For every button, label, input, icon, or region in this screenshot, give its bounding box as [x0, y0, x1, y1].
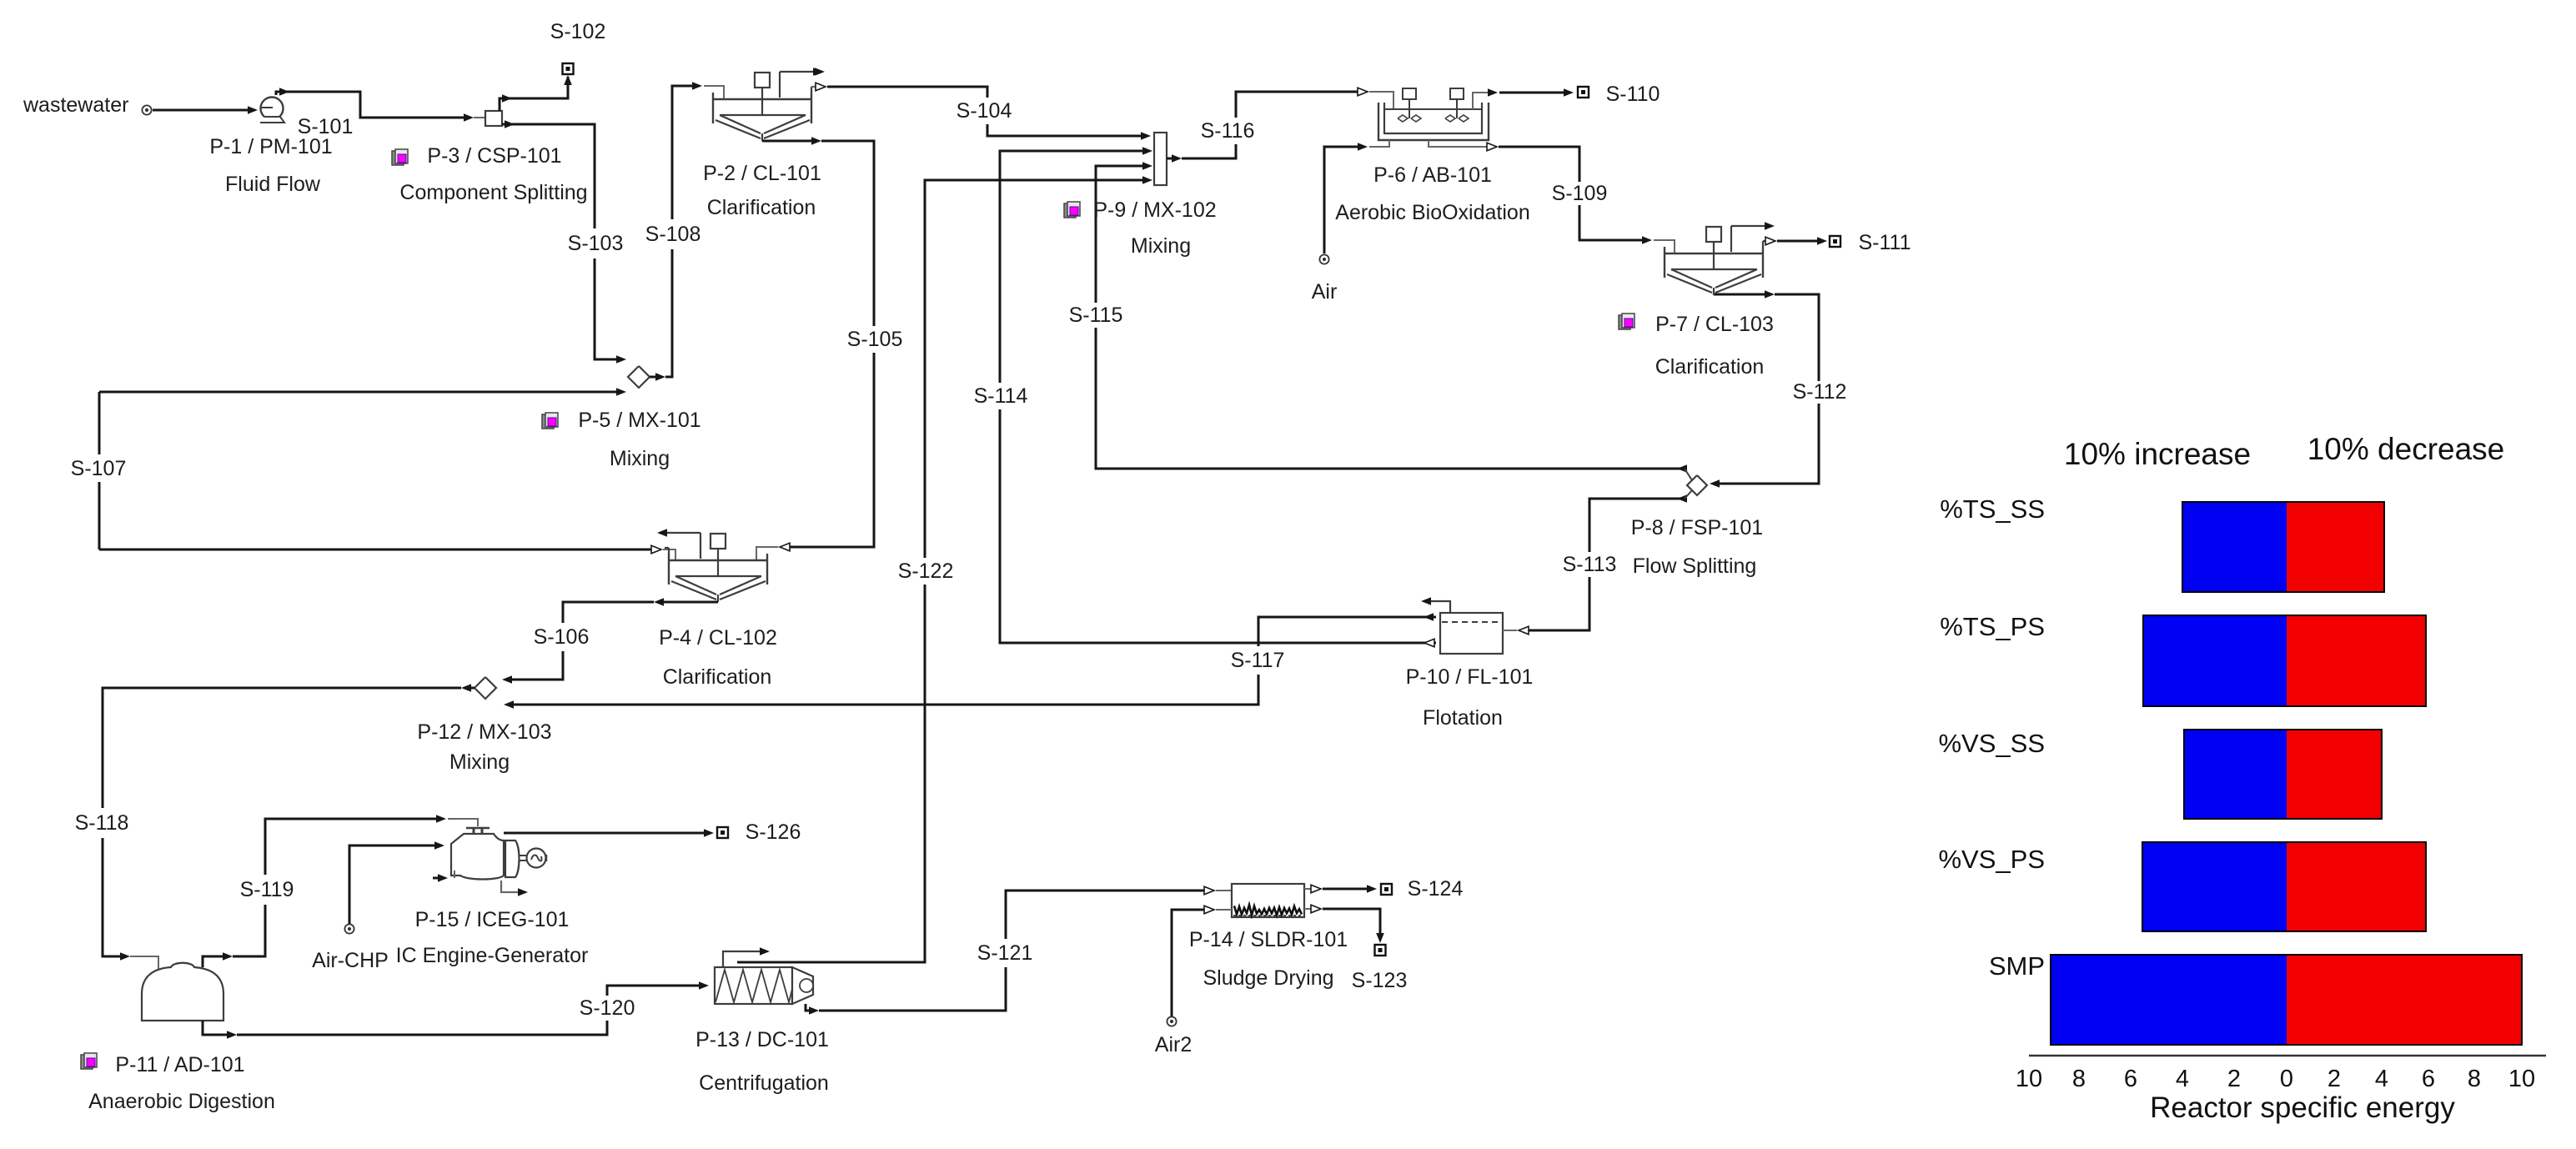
svg-text:P-5 / MX-101: P-5 / MX-101	[578, 409, 700, 432]
svg-text:S-111: S-111	[1858, 231, 1911, 254]
svg-text:S-103: S-103	[568, 232, 624, 255]
svg-text:P-7 / CL-103: P-7 / CL-103	[1655, 313, 1774, 336]
svg-text:Air2: Air2	[1155, 1033, 1192, 1056]
svg-text:P-9 / MX-102: P-9 / MX-102	[1093, 198, 1216, 222]
svg-text:%TS_SS: %TS_SS	[1940, 494, 2045, 524]
svg-text:%VS_SS: %VS_SS	[1938, 729, 2045, 758]
svg-text:P-12 / MX-103: P-12 / MX-103	[417, 720, 551, 744]
svg-text:S-121: S-121	[977, 941, 1033, 965]
svg-text:P-11 / AD-101: P-11 / AD-101	[115, 1053, 244, 1076]
svg-text:S-106: S-106	[534, 625, 590, 649]
svg-text:S-120: S-120	[580, 996, 635, 1020]
svg-text:S-126: S-126	[746, 820, 801, 844]
svg-text:Clarification: Clarification	[707, 196, 816, 219]
svg-text:IC Engine-Generator: IC Engine-Generator	[396, 944, 589, 967]
svg-text:10: 10	[2508, 1066, 2535, 1092]
svg-text:Mixing: Mixing	[610, 447, 670, 470]
svg-text:6: 6	[2124, 1066, 2137, 1092]
svg-text:S-105: S-105	[847, 328, 903, 351]
svg-text:S-118: S-118	[75, 811, 129, 835]
svg-text:S-108: S-108	[645, 223, 701, 246]
svg-text:S-122: S-122	[898, 559, 954, 583]
svg-text:Flotation: Flotation	[1423, 706, 1503, 730]
svg-text:10% decrease: 10% decrease	[2307, 432, 2505, 466]
svg-text:Mixing: Mixing	[1131, 234, 1191, 258]
svg-text:S-115: S-115	[1069, 304, 1123, 327]
svg-text:Air-CHP: Air-CHP	[312, 949, 389, 972]
svg-text:8: 8	[2072, 1066, 2086, 1092]
svg-text:Clarification: Clarification	[663, 665, 772, 689]
svg-text:Fluid Flow: Fluid Flow	[225, 173, 321, 196]
svg-text:S-124: S-124	[1408, 877, 1464, 901]
svg-text:S-112: S-112	[1793, 380, 1847, 404]
svg-text:P-10 / FL-101: P-10 / FL-101	[1406, 665, 1534, 689]
svg-text:S-114: S-114	[974, 384, 1028, 408]
svg-text:P-13 / DC-101: P-13 / DC-101	[695, 1028, 829, 1051]
svg-text:S-116: S-116	[1201, 119, 1255, 143]
svg-text:Aerobic BioOxidation: Aerobic BioOxidation	[1335, 201, 1529, 224]
svg-text:Sludge Drying: Sludge Drying	[1203, 966, 1333, 990]
svg-text:S-113: S-113	[1563, 553, 1617, 576]
svg-text:wastewater: wastewater	[23, 93, 128, 117]
svg-text:4: 4	[2176, 1066, 2189, 1092]
svg-text:SMP: SMP	[1989, 951, 2045, 981]
svg-text:Reactor specific energy: Reactor specific energy	[2150, 1091, 2455, 1124]
svg-text:S-117: S-117	[1231, 649, 1285, 672]
svg-text:Mixing: Mixing	[449, 750, 510, 774]
svg-text:S-104: S-104	[957, 99, 1012, 123]
svg-text:2: 2	[2227, 1066, 2241, 1092]
svg-text:S-110: S-110	[1606, 83, 1660, 106]
svg-text:S-107: S-107	[71, 457, 127, 480]
svg-text:6: 6	[2422, 1066, 2435, 1092]
svg-text:0: 0	[2280, 1066, 2293, 1092]
svg-text:10: 10	[2016, 1066, 2042, 1092]
svg-text:%TS_PS: %TS_PS	[1940, 612, 2045, 641]
svg-text:2: 2	[2327, 1066, 2341, 1092]
svg-text:S-119: S-119	[240, 878, 294, 901]
svg-text:Anaerobic Digestion: Anaerobic Digestion	[88, 1090, 275, 1113]
svg-text:P-1 / PM-101: P-1 / PM-101	[209, 135, 332, 158]
svg-text:%VS_PS: %VS_PS	[1938, 845, 2045, 874]
svg-text:Component Splitting: Component Splitting	[399, 181, 587, 204]
svg-text:Centrifugation: Centrifugation	[699, 1071, 829, 1095]
svg-text:Clarification: Clarification	[1655, 355, 1765, 379]
svg-text:P-3 / CSP-101: P-3 / CSP-101	[427, 144, 561, 168]
svg-text:P-6 / AB-101: P-6 / AB-101	[1373, 163, 1492, 187]
svg-text:P-4 / CL-102: P-4 / CL-102	[659, 626, 777, 650]
svg-text:P-14 / SLDR-101: P-14 / SLDR-101	[1189, 928, 1348, 951]
svg-text:S-123: S-123	[1352, 969, 1408, 992]
svg-text:S-109: S-109	[1552, 182, 1608, 205]
svg-text:Air: Air	[1312, 280, 1338, 304]
svg-text:10% increase: 10% increase	[2064, 437, 2251, 471]
svg-text:S-102: S-102	[550, 20, 606, 43]
svg-text:Flow Splitting: Flow Splitting	[1633, 554, 1757, 578]
svg-text:P-8 / FSP-101: P-8 / FSP-101	[1631, 516, 1763, 539]
svg-text:P-2 / CL-101: P-2 / CL-101	[703, 162, 821, 185]
svg-text:8: 8	[2468, 1066, 2481, 1092]
svg-text:4: 4	[2375, 1066, 2388, 1092]
svg-text:P-15 / ICEG-101: P-15 / ICEG-101	[415, 908, 570, 931]
